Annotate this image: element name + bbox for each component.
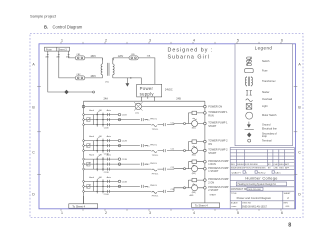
- overload contact OL4: [150, 185, 159, 197]
- To Sheet 4 box (left): [69, 204, 98, 209]
- svg-text:Hand: Hand: [89, 177, 95, 179]
- svg-text:REV: REV: [284, 203, 289, 205]
- svg-text:START: START: [208, 125, 216, 128]
- svg-text:loop: loop: [262, 135, 267, 138]
- transformer T1: [101, 58, 114, 83]
- svg-text:POWER ON: POWER ON: [208, 106, 222, 109]
- svg-text:CB5: CB5: [131, 54, 135, 56]
- svg-text:CHK: CHK: [274, 164, 279, 166]
- legend transformer symbol: [245, 76, 275, 86]
- aux contact rung3 group 2: [164, 148, 174, 152]
- To Sheet 4 box (right): [192, 203, 220, 208]
- right rail terminal 6: [204, 160, 229, 166]
- coil terminal rung1 group 3: [118, 158, 127, 161]
- heading "B. Control Diagram": [44, 24, 83, 29]
- rung 1 group 3: [84, 158, 118, 160]
- rung 2 group 4: [84, 185, 148, 187]
- svg-text:APP: APP: [285, 163, 290, 166]
- svg-text:S05-205-000: S05-205-000: [248, 189, 261, 191]
- svg-text:5: 5: [237, 38, 239, 42]
- legend starter symbol: [246, 91, 270, 95]
- quality row: [230, 171, 294, 175]
- svg-text:ISSUED FOR REVIEW: ISSUED FOR REVIEW: [237, 164, 258, 166]
- selector switch group 3: [97, 155, 104, 171]
- svg-text:15A: 15A: [147, 55, 151, 58]
- wire: CB2 to transformer primary bottom: [85, 77, 103, 79]
- wire: fuse to power supply (right drop): [138, 58, 155, 84]
- revision table header text: [231, 163, 290, 170]
- legend overload symbol: [246, 98, 273, 101]
- svg-text:3: 3: [149, 38, 151, 42]
- feeder rail 24A/24B: [84, 100, 205, 102]
- svg-text:2: 2: [105, 38, 107, 42]
- svg-text:480V: 480V: [91, 56, 97, 58]
- svg-text:REV: REV: [231, 164, 236, 166]
- terminal circle on ground bus: [93, 91, 95, 93]
- svg-text:START: START: [208, 152, 216, 155]
- svg-text:4: 4: [193, 38, 195, 42]
- contacts column group 1: [108, 113, 110, 126]
- pilot light L1: [134, 102, 142, 114]
- svg-text:8: 8: [288, 223, 291, 229]
- rail nodes group 4: [83, 181, 85, 193]
- e-stop contact group 3: [87, 162, 91, 166]
- bottom misc labels: [190, 194, 217, 198]
- svg-text:480V: 480V: [91, 76, 97, 78]
- svg-text:CONTRACT NO.: CONTRACT NO.: [231, 188, 248, 191]
- svg-text:SHEET: SHEET: [284, 193, 292, 195]
- svg-text:PH4OL: PH4OL: [150, 185, 158, 187]
- svg-text:Light: Light: [262, 105, 268, 108]
- svg-text:PH3OL: PH3OL: [150, 163, 158, 165]
- svg-text:Fuse: Fuse: [262, 70, 268, 73]
- grid row letters: [32, 63, 301, 197]
- breaker CB2: [75, 74, 84, 80]
- wire: starter to right rail group 4: [188, 180, 203, 188]
- contract row: [230, 188, 294, 192]
- svg-text:PH2OL: PH2OL: [150, 144, 158, 146]
- drawing frame: [39, 44, 296, 209]
- svg-text:Switch: Switch: [262, 60, 270, 63]
- svg-text:Subarna Girl: Subarna Girl: [168, 54, 210, 60]
- legend light symbol: [246, 104, 268, 110]
- svg-text:DESCRIPTION OF REVISIONS: DESCRIPTION OF REVISIONS: [237, 168, 266, 170]
- svg-text:C13B: C13B: [122, 159, 128, 161]
- overload contact OL1: [150, 118, 159, 130]
- rail nodes group 2: [83, 140, 85, 152]
- wire: secondary top to fuse F1: [113, 58, 129, 60]
- PLC contact group 2: [118, 144, 150, 147]
- contacts column group 2: [108, 139, 110, 152]
- svg-text:Overload: Overload: [262, 98, 273, 101]
- svg-text:C11B: C11B: [104, 127, 109, 129]
- breaker CB1: [75, 54, 84, 60]
- grid column numbers: [61, 38, 283, 215]
- node: pilot rung left: [82, 105, 85, 108]
- rung 1 group 2: [84, 140, 118, 142]
- svg-text:(M4): (M4): [192, 192, 196, 194]
- pilot light rung: [85, 106, 204, 108]
- contacts column group 4: [108, 180, 110, 193]
- svg-text:1: 1: [61, 38, 63, 42]
- scale / dwg / rev row: [231, 201, 290, 209]
- svg-text:QUALITY: QUALITY: [232, 172, 242, 175]
- svg-text:C13: C13: [171, 167, 174, 169]
- PLC contact group 1: [118, 118, 150, 121]
- selector header text group 3: [89, 154, 112, 157]
- aux contact rung3 group 4: [164, 189, 174, 193]
- svg-text:TP1OL: TP1OL: [152, 129, 159, 131]
- svg-text:ENG: ENG: [279, 164, 284, 166]
- svg-text:1 RUN: 1 RUN: [208, 163, 216, 166]
- svg-text:(M3): (M3): [192, 173, 196, 175]
- svg-text:4: 4: [193, 211, 195, 215]
- left rail: [83, 101, 85, 204]
- legend secondary symbol: [247, 132, 277, 138]
- selector header text group 1: [89, 109, 112, 112]
- svg-text:Ground: Ground: [262, 124, 271, 127]
- legend box: [235, 44, 293, 146]
- rung 3 group 2: [84, 150, 183, 152]
- svg-text:1: 1: [61, 211, 63, 215]
- svg-text:Control Diagram: Control Diagram: [53, 24, 83, 29]
- right rail terminal 3: [204, 122, 229, 128]
- svg-text:24B: 24B: [176, 98, 181, 101]
- svg-text:CALC: CALC: [275, 172, 281, 175]
- rail nodes group 1: [83, 114, 85, 126]
- right rail terminal 1: [204, 105, 223, 108]
- wire: starter to right rail group 2: [188, 142, 203, 151]
- right rail: [204, 101, 206, 203]
- svg-text:(M1): (M1): [192, 128, 196, 130]
- svg-text:2 ON: 2 ON: [208, 182, 214, 185]
- rung 1 group 4: [84, 180, 118, 182]
- legend fuse symbol: [245, 69, 268, 73]
- frame tick marks: [61, 42, 281, 211]
- legend ground symbol: [247, 122, 271, 128]
- motor starter M4: [184, 178, 198, 194]
- rung 2 group 2: [84, 145, 148, 147]
- right rail terminal 9: [204, 186, 229, 192]
- right rail terminal 4: [204, 140, 229, 146]
- svg-text:Hand: Hand: [89, 136, 95, 138]
- contacts column group 3: [108, 158, 110, 171]
- selector switch group 4: [97, 177, 104, 193]
- vertical link group 3: [93, 159, 95, 169]
- svg-text:To Sheet 4: To Sheet 4: [195, 204, 208, 208]
- svg-text:Starter: Starter: [262, 91, 270, 94]
- fuse F1: [129, 54, 151, 60]
- vertical link group 1: [93, 115, 95, 125]
- svg-text:NON-Q: NON-Q: [258, 173, 266, 175]
- legend switch symbol: [247, 57, 270, 66]
- svg-text:C14B: C14B: [104, 194, 109, 196]
- svg-text:PP2OL: PP2OL: [152, 196, 159, 198]
- svg-text:ENG: ENG: [279, 168, 284, 170]
- right rail terminal 8: [204, 178, 229, 184]
- motor starter M3: [184, 160, 198, 175]
- company name row: [230, 175, 294, 180]
- e-stop contact group 4: [87, 184, 91, 188]
- vertical link group 2: [93, 141, 95, 151]
- aux contact rung3 group 1: [164, 122, 174, 126]
- svg-text:5: 5: [237, 211, 239, 215]
- svg-text:Designed by :: Designed by :: [168, 48, 214, 54]
- svg-text:APP: APP: [285, 167, 290, 170]
- From Sheet 3 box: [45, 47, 70, 51]
- right rail terminal 2: [204, 111, 229, 117]
- wire: PS right lead to feeder: [154, 98, 156, 101]
- svg-text:SN05-00-W01-AN-10017: SN05-00-W01-AN-10017: [242, 205, 268, 208]
- svg-text:C14B: C14B: [122, 181, 128, 183]
- svg-text:From: From: [46, 48, 52, 51]
- svg-text:none: none: [232, 206, 238, 208]
- legend motor switch symbol: [246, 112, 277, 119]
- rail nodes group 3: [83, 158, 85, 170]
- right rail terminal 5: [204, 149, 229, 155]
- svg-text:6: 6: [281, 38, 283, 42]
- svg-text:supply: supply: [140, 91, 155, 96]
- svg-text:C13B: C13B: [104, 172, 109, 174]
- e-stop contact group 1: [87, 118, 91, 122]
- PLC contact group 4: [118, 185, 150, 188]
- aux contact rung3 group 3: [164, 167, 174, 171]
- svg-text:Heating & Cooling System Desig: Heating & Cooling System Design for: [238, 183, 277, 186]
- svg-text:3: 3: [149, 211, 151, 215]
- wire: left rail to To Sheet 4 box: [83, 196, 85, 204]
- ground symbol: [126, 78, 130, 87]
- svg-text:120V: 120V: [118, 56, 124, 58]
- right rail terminal 7: [204, 167, 229, 173]
- coil terminal rung1 group 4: [118, 180, 127, 183]
- svg-text:Sheet 3: Sheet 3: [58, 48, 67, 51]
- wire: secondary bottom to power supply: [113, 78, 142, 84]
- selector header text group 4: [89, 176, 112, 179]
- svg-text:C11B: C11B: [122, 115, 128, 117]
- svg-text:CHK: CHK: [274, 168, 279, 170]
- wire: starter to right rail group 1: [188, 113, 203, 124]
- e-stop contact group 2: [87, 144, 91, 148]
- svg-text:24A: 24A: [104, 98, 109, 101]
- svg-text:C12: C12: [171, 148, 174, 150]
- svg-text:ON: ON: [208, 143, 212, 146]
- wire: L3 to breaker CB1: [69, 55, 76, 58]
- selector switch group 1: [97, 110, 104, 126]
- svg-text:Humber College: Humber College: [245, 175, 277, 180]
- svg-text:Hand: Hand: [89, 110, 95, 112]
- rung 3 group 4: [84, 188, 183, 192]
- legend terminal symbol: [248, 139, 272, 142]
- svg-text:Power and Control Diagram: Power and Control Diagram: [237, 196, 272, 200]
- title row: [230, 191, 294, 201]
- selector header text group 2: [89, 135, 112, 138]
- coil terminal rung1 group 1: [118, 113, 127, 116]
- svg-text:2: 2: [105, 211, 107, 215]
- svg-text:Sample project: Sample project: [30, 14, 57, 19]
- rung 3 group 1: [84, 124, 183, 125]
- wire: starter to right rail group 3: [188, 162, 203, 169]
- svg-text:RUN: RUN: [208, 114, 214, 117]
- svg-text:Terminal: Terminal: [262, 139, 272, 142]
- coil terminal rung1 group 2: [118, 139, 127, 142]
- svg-text:To Sheet 4: To Sheet 4: [72, 204, 85, 208]
- outer dashed border: [30, 34, 303, 218]
- vertical link group 4: [93, 181, 95, 191]
- svg-text:(M2): (M2): [192, 155, 196, 157]
- legend electrical line symbol: [245, 128, 278, 131]
- svg-text:Transformer: Transformer: [262, 80, 276, 83]
- svg-text:C11: C11: [171, 122, 174, 124]
- svg-text:SCALE: SCALE: [231, 202, 238, 205]
- wire: three phase leads L1 L2 L3: [45, 51, 70, 59]
- wire: CB1 to transformer primary: [85, 58, 103, 60]
- svg-text:Electrical line: Electrical line: [262, 128, 277, 131]
- svg-text:(L1): (L1): [135, 113, 139, 115]
- svg-text:PH1OL: PH1OL: [150, 118, 158, 120]
- rung 1 group 1: [84, 114, 118, 116]
- svg-text:DWG NO: DWG NO: [242, 203, 251, 205]
- svg-text:(T1): (T1): [105, 81, 109, 83]
- svg-text:PP1OL: PP1OL: [152, 173, 159, 175]
- svg-text:B.: B.: [44, 24, 48, 29]
- junction dot on secondary bottom wire: [130, 77, 131, 78]
- motor starter M1: [184, 111, 198, 130]
- svg-text:Hand: Hand: [89, 155, 95, 157]
- svg-text:Motor Switch: Motor Switch: [262, 114, 277, 117]
- svg-text:6: 6: [281, 211, 283, 215]
- designer note text: [168, 48, 214, 61]
- wire: PS left lead to feeder: [141, 98, 143, 101]
- svg-text:C12B: C12B: [122, 141, 128, 143]
- selector switch group 2: [97, 136, 104, 152]
- PLC contact group 3: [118, 163, 150, 166]
- revision table grid: [230, 150, 294, 170]
- junction diamond on ground bus: [64, 90, 68, 94]
- svg-text:1 START: 1 START: [208, 170, 219, 173]
- svg-text:START: START: [210, 194, 217, 197]
- svg-text:Legend: Legend: [255, 45, 273, 50]
- overload contact OL2: [150, 144, 159, 156]
- svg-text:C14: C14: [171, 189, 174, 191]
- rung 2 group 1: [84, 119, 148, 121]
- overload contact OL3: [150, 163, 159, 175]
- wire: L2 to breaker CB2: [59, 55, 76, 78]
- svg-text:TP2OL: TP2OL: [152, 155, 159, 157]
- wire: L1 down to ground bus: [48, 55, 93, 92]
- svg-text:24VDC: 24VDC: [165, 88, 173, 91]
- title block outline: [230, 148, 294, 209]
- motor starter M2: [184, 140, 198, 157]
- svg-text:2 START: 2 START: [208, 189, 219, 192]
- project name row: [230, 182, 294, 187]
- rung 2 group 3: [84, 163, 148, 165]
- rung 3 group 3: [84, 168, 183, 170]
- power supply PS1: [137, 84, 162, 99]
